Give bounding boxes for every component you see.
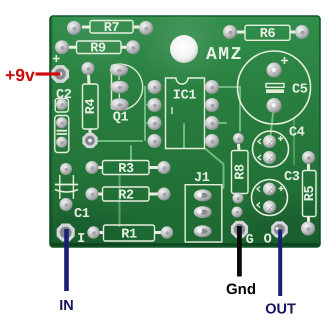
pad R5 top xyxy=(302,151,315,164)
transistor Q1 xyxy=(112,64,143,126)
wire trace IC1 to J1 area xyxy=(184,124,224,188)
pad IC1 pin 2 xyxy=(148,98,162,112)
connector J1 xyxy=(185,171,222,242)
pad Q1 bottom xyxy=(110,98,128,111)
pad IC1 pin 8 xyxy=(205,80,219,94)
resistor R2 xyxy=(97,187,158,204)
svg-text:IC1: IC1 xyxy=(173,89,197,104)
wire trace R3 up xyxy=(130,146,132,161)
pad R9 right xyxy=(126,40,140,54)
resistor R5 xyxy=(303,164,319,222)
pad C5 plus xyxy=(267,63,282,78)
svg-text:Gnd: Gnd xyxy=(226,281,256,298)
wire trace IC1 pin right xyxy=(212,122,226,124)
capacitor C2 xyxy=(55,88,72,153)
pad IC1 pin 4 xyxy=(148,134,162,148)
pad +9v xyxy=(51,65,69,83)
resistor R6 xyxy=(237,25,296,42)
pad R6 right xyxy=(295,25,309,39)
wire trace Q1 to IC1 xyxy=(144,87,146,140)
mounting hole xyxy=(170,35,198,63)
svg-text:IN: IN xyxy=(59,298,74,314)
svg-text:R1: R1 xyxy=(121,228,137,243)
svg-text:Q1: Q1 xyxy=(113,111,129,126)
silkscreen xyxy=(53,21,318,249)
wire trace IC1 pin to R8 xyxy=(212,87,240,131)
svg-text:R7: R7 xyxy=(104,21,120,36)
pads xyxy=(51,21,315,242)
pad IC1 pin 6 xyxy=(205,116,219,130)
pad R2 right xyxy=(158,188,171,201)
svg-text:OUT: OUT xyxy=(265,302,296,318)
pad C1 bottom xyxy=(60,198,73,211)
pad Q1 middle xyxy=(110,81,128,94)
pad R8 top xyxy=(233,133,244,144)
svg-text:C4: C4 xyxy=(289,126,305,141)
resistor R4 xyxy=(83,75,100,134)
pad Gnd xyxy=(231,221,248,238)
pad R3 left xyxy=(86,161,99,174)
pad C2 middle xyxy=(56,117,67,128)
svg-text:R4: R4 xyxy=(84,99,99,115)
svg-text:J1: J1 xyxy=(194,171,210,186)
pad R4 top xyxy=(82,62,95,75)
svg-text:R6: R6 xyxy=(260,27,276,42)
op-amp IC1 xyxy=(166,78,205,149)
wire Gnd lead xyxy=(237,226,242,277)
pad R4 bottom xyxy=(82,133,97,148)
pad R2 left xyxy=(86,188,99,201)
pad R7 left xyxy=(67,21,81,35)
pad C2 bottom xyxy=(56,137,67,148)
pad C1 top xyxy=(60,163,72,175)
pad IN xyxy=(57,223,75,241)
pad J1 pin 3 xyxy=(194,225,212,237)
wire trace R4 pad to J1 xyxy=(98,140,142,142)
capacitor C5 xyxy=(238,51,311,124)
svg-text:C1: C1 xyxy=(74,207,90,222)
pad R1 left xyxy=(87,226,99,238)
pad IC1 pin 1 xyxy=(148,80,162,94)
pad J1 pin 2 xyxy=(194,206,212,218)
wire trace R2 to R1 xyxy=(119,176,121,226)
pad R8 bottom xyxy=(233,193,244,204)
pad IC1 pin 7 xyxy=(205,98,219,112)
pad C3 plus xyxy=(263,183,276,196)
pad IC1 pin 3 xyxy=(148,116,162,130)
pad node below R8 xyxy=(232,207,243,218)
resistor R7 xyxy=(82,21,140,37)
pad R3 right xyxy=(158,161,171,174)
svg-text:C5: C5 xyxy=(292,83,308,98)
pad C5 minus xyxy=(267,98,282,113)
capacitor C1 xyxy=(55,175,90,222)
pad R1 right xyxy=(161,226,173,238)
pad J1 pin 1 xyxy=(194,189,212,201)
resistor R9 xyxy=(69,41,127,56)
svg-text:G: G xyxy=(246,233,254,248)
svg-text:AMZ: AMZ xyxy=(206,45,243,65)
capacitor C4 xyxy=(253,126,305,168)
svg-text:R5: R5 xyxy=(303,186,318,202)
wire OUT lead xyxy=(278,230,282,297)
wire +9v red lead xyxy=(36,72,61,75)
svg-text:R3: R3 xyxy=(118,162,134,177)
pad OUT xyxy=(271,221,288,238)
pad IC1 pin 5 xyxy=(205,134,219,148)
wire trace C5 to C4 xyxy=(270,105,274,140)
node +9v plus mark xyxy=(53,55,60,62)
svg-text:R9: R9 xyxy=(90,41,106,56)
svg-text:+9v: +9v xyxy=(5,65,35,85)
svg-text:R2: R2 xyxy=(118,189,134,204)
wire IN lead xyxy=(64,229,69,291)
pad Q1 top xyxy=(110,64,128,77)
wire trace IC1 left pin stubs xyxy=(146,105,153,123)
pad R6 left xyxy=(223,25,237,39)
copper traces xyxy=(98,87,294,226)
pad R7 right xyxy=(139,21,153,35)
svg-text:O: O xyxy=(264,233,272,248)
pad C2 top xyxy=(56,99,68,111)
svg-text:C3: C3 xyxy=(284,170,300,185)
svg-text:I: I xyxy=(77,232,85,247)
resistor R1 xyxy=(99,225,161,243)
svg-text:R8: R8 xyxy=(234,164,249,180)
pad C3 minus xyxy=(263,201,276,214)
capacitor C3 xyxy=(252,170,300,216)
pad R5 bottom xyxy=(301,222,315,236)
pad C4 minus xyxy=(263,151,276,164)
wire trace R6 to R5 xyxy=(293,118,295,164)
resistor R8 xyxy=(232,144,249,197)
resistor R3 xyxy=(97,161,158,178)
pad R9 left xyxy=(55,40,69,54)
pad C4 plus xyxy=(263,135,276,148)
